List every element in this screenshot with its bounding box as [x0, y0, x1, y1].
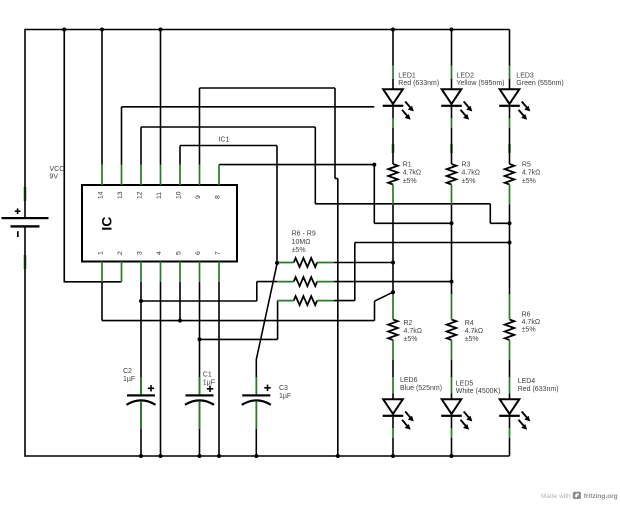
- svg-text:10: 10: [176, 191, 183, 199]
- svg-text:Blue (525nm): Blue (525nm): [400, 385, 442, 392]
- svg-text:5: 5: [176, 251, 183, 255]
- svg-text:6: 6: [195, 251, 202, 255]
- svg-text:R6: R6: [522, 312, 531, 319]
- svg-text:8: 8: [215, 195, 222, 199]
- svg-text:11: 11: [156, 192, 163, 199]
- svg-text:14: 14: [98, 191, 105, 199]
- svg-text:C3: C3: [279, 385, 288, 392]
- svg-text:LED4: LED4: [518, 378, 536, 385]
- svg-text:±5%: ±5%: [404, 336, 418, 343]
- svg-text:±5%: ±5%: [403, 178, 417, 185]
- svg-text:12: 12: [137, 191, 144, 199]
- svg-text:Green (555nm): Green (555nm): [516, 80, 563, 87]
- svg-text:White (4500K): White (4500K): [456, 388, 501, 395]
- svg-text:VCC: VCC: [50, 166, 65, 173]
- svg-text:4.7kΩ: 4.7kΩ: [403, 170, 421, 177]
- svg-text:1µF: 1µF: [279, 393, 291, 400]
- svg-text:1µF: 1µF: [123, 376, 135, 383]
- svg-text:2: 2: [117, 251, 124, 255]
- svg-text:4.7kΩ: 4.7kΩ: [462, 170, 480, 177]
- svg-text:4.7kΩ: 4.7kΩ: [522, 319, 540, 326]
- svg-text:13: 13: [117, 191, 124, 199]
- svg-text:4.7kΩ: 4.7kΩ: [404, 328, 422, 335]
- svg-text:1: 1: [98, 251, 105, 255]
- svg-text:LED6: LED6: [400, 377, 418, 384]
- svg-text:Red (633nm): Red (633nm): [518, 386, 559, 393]
- svg-text:R1: R1: [403, 161, 412, 168]
- svg-text:±5%: ±5%: [292, 247, 306, 254]
- svg-text:R4: R4: [465, 320, 474, 327]
- svg-text:4.7kΩ: 4.7kΩ: [465, 328, 483, 335]
- svg-text:fritzing.org: fritzing.org: [584, 493, 618, 500]
- svg-text:±5%: ±5%: [522, 178, 536, 185]
- svg-text:Yellow (595nm): Yellow (595nm): [457, 80, 505, 87]
- svg-text:R3: R3: [462, 161, 471, 168]
- svg-text:±5%: ±5%: [465, 336, 479, 343]
- svg-text:R5: R5: [522, 161, 531, 168]
- svg-text:1µF: 1µF: [203, 379, 215, 386]
- svg-text:C1: C1: [203, 372, 212, 379]
- svg-text:IC1: IC1: [219, 136, 230, 143]
- svg-text:R2: R2: [404, 320, 413, 327]
- svg-text:IC: IC: [99, 217, 115, 231]
- svg-text:9V: 9V: [50, 174, 59, 181]
- svg-text:7: 7: [215, 251, 222, 255]
- svg-text:C2: C2: [123, 368, 132, 375]
- svg-text:LED1: LED1: [398, 72, 416, 79]
- svg-text:±5%: ±5%: [522, 327, 536, 334]
- svg-text:LED3: LED3: [516, 72, 534, 79]
- svg-text:LED2: LED2: [457, 72, 475, 79]
- svg-text:9: 9: [195, 195, 202, 199]
- svg-text:Made with: Made with: [541, 493, 571, 500]
- svg-text:3: 3: [137, 251, 144, 255]
- svg-text:10MΩ: 10MΩ: [292, 239, 311, 246]
- svg-text:Red (633nm): Red (633nm): [398, 80, 439, 87]
- svg-text:LED5: LED5: [456, 380, 474, 387]
- svg-text:4: 4: [156, 251, 163, 255]
- svg-text:R6 - R9: R6 - R9: [292, 231, 316, 238]
- svg-text:4.7kΩ: 4.7kΩ: [522, 170, 540, 177]
- svg-text:±5%: ±5%: [462, 178, 476, 185]
